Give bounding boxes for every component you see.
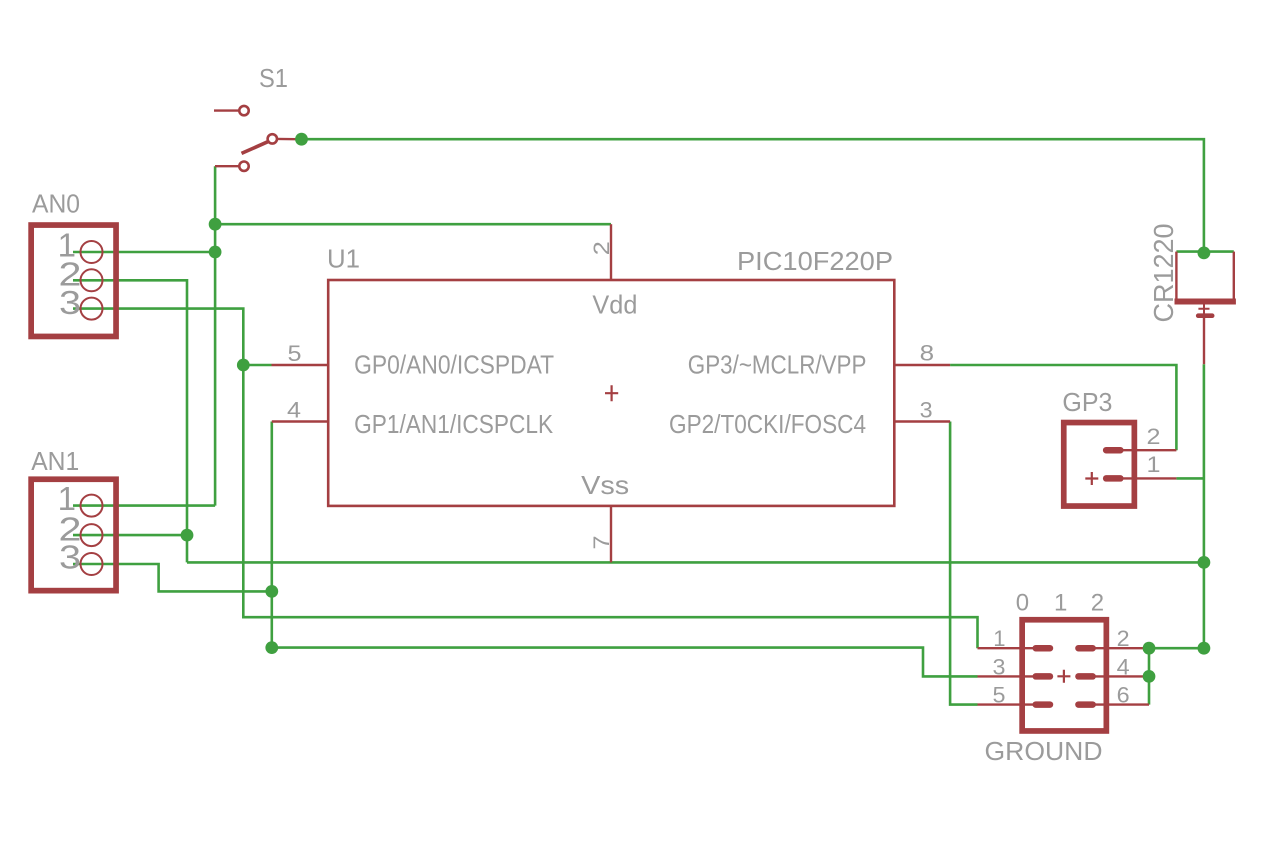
svg-text:AN0: AN0 (32, 189, 80, 219)
junction ground bus bottom (1198, 642, 1211, 655)
junction ground bus right (1198, 556, 1211, 569)
GP3 pin 1 pad (1103, 475, 1124, 482)
connector GROUND body (1022, 620, 1106, 731)
svg-text:1: 1 (1054, 589, 1067, 616)
junction AN1 pin2 (181, 529, 194, 542)
svg-text:GP3/~MCLR/VPP: GP3/~MCLR/VPP (688, 350, 867, 380)
svg-text:2: 2 (589, 241, 614, 255)
AN1 pin 3 pad (81, 553, 103, 575)
svg-text:GP1/AN1/ICSPCLK: GP1/AN1/ICSPCLK (354, 409, 554, 439)
svg-text:S1: S1 (259, 63, 288, 93)
svg-text:2: 2 (1147, 424, 1161, 449)
wire AN1 pin2 (73, 534, 187, 537)
svg-text:5: 5 (993, 683, 1006, 708)
svg-text:3: 3 (993, 655, 1006, 680)
wire GP2 pin3 net to GROUND pin5 (950, 422, 977, 705)
svg-text:GP3: GP3 (1062, 387, 1112, 417)
wire AN0 pin1 (73, 251, 215, 254)
battery CR1220 right side (1233, 252, 1235, 299)
IC U1 body (328, 280, 894, 506)
GROUND pin 3 lead (978, 675, 1043, 677)
GROUND pad 2 (1075, 645, 1096, 652)
junction GP1 corner (265, 641, 278, 654)
battery plus sign (1198, 303, 1209, 314)
switch S1 bottom contact (239, 162, 248, 171)
U1 pin 5 stub (272, 364, 328, 366)
svg-text:5: 5 (288, 341, 302, 366)
U1 center cross (605, 385, 618, 401)
battery negative lead (1203, 318, 1205, 364)
svg-text:2: 2 (1117, 626, 1130, 651)
svg-text:AN1: AN1 (31, 446, 79, 476)
connector GP3 body (1064, 423, 1135, 507)
U1 pin 7 stub (610, 505, 612, 562)
junction Vdd feed (209, 218, 222, 231)
junction battery top (1198, 247, 1211, 260)
AN0 pin 3 pad (81, 298, 103, 320)
svg-text:6: 6 (1117, 683, 1130, 708)
junction AN0 pin1 (209, 246, 222, 259)
junction GROUND pin2 (1143, 642, 1156, 655)
svg-text:4: 4 (287, 397, 301, 422)
GROUND pad 6 (1075, 701, 1096, 708)
wire battery negative down to ground bus (1203, 364, 1206, 648)
svg-text:0: 0 (1016, 589, 1029, 616)
GROUND pad 1 (1033, 645, 1054, 652)
AN0 pin 1 pad (81, 241, 103, 263)
switch S1 pole contact (268, 134, 277, 143)
svg-text:8: 8 (920, 340, 935, 365)
svg-text:PIC10F220P: PIC10F220P (737, 246, 893, 276)
svg-text:1: 1 (1147, 452, 1161, 477)
GP3 pin 2 pad (1103, 447, 1124, 454)
wire VCC top from switch to battery (302, 139, 1204, 253)
wire GP3 pin8 to GP3 header pin2 (950, 365, 1176, 450)
AN1 pin 2 pad (81, 524, 103, 546)
connector AN1 body (31, 479, 116, 590)
wire AN1 pin1 (73, 504, 215, 507)
svg-text:GP2/T0CKI/FOSC4: GP2/T0CKI/FOSC4 (669, 409, 866, 439)
wire AN0 pin3 to GROUND pin1 (73, 309, 978, 649)
GROUND pin 2 lead (1086, 647, 1149, 649)
switch S1 top contact (239, 106, 248, 115)
svg-text:U1: U1 (327, 244, 360, 274)
U1 pin 4 stub (272, 420, 327, 422)
wire GP1 pin4 net to GROUND pin3 (272, 422, 978, 677)
svg-text:7: 7 (589, 536, 614, 550)
GP3 plus mark (1085, 472, 1098, 485)
GP3 pin 2 lead (1113, 449, 1176, 451)
GROUND pin 5 lead (978, 703, 1043, 705)
battery positive plate (1175, 299, 1236, 305)
svg-text:1: 1 (993, 626, 1005, 651)
svg-text:3: 3 (920, 397, 933, 422)
wire AN1 pin3 jog (73, 564, 272, 591)
svg-text:GROUND: GROUND (985, 736, 1103, 766)
wire ground bus horizontal (187, 561, 1204, 564)
battery CR1220 left side (1175, 252, 1177, 299)
svg-text:Vss: Vss (581, 470, 629, 500)
svg-text:3: 3 (59, 284, 81, 321)
U1 pin 3 stub (894, 420, 950, 422)
switch S1 top throw lead (214, 109, 239, 111)
GROUND pad 4 (1075, 673, 1096, 680)
svg-text:2: 2 (1091, 589, 1104, 616)
U1 pin 2 stub (610, 224, 612, 279)
junction at switch pole (295, 133, 308, 146)
GP3 pin 1 lead (1113, 477, 1176, 479)
junction GROUND pin4 (1143, 670, 1156, 683)
junction GP0 pin5 (237, 359, 250, 372)
switch S1 blade (242, 141, 270, 153)
connector AN0 body (31, 225, 116, 336)
GROUND pin 4 lead (1086, 675, 1149, 677)
wire battery top edge (1176, 250, 1233, 253)
AN0 pin 2 pad (81, 269, 103, 291)
GROUND pin 1 lead (978, 647, 1043, 649)
wire AN0 pin2 to ground bus (73, 280, 187, 562)
switch S1 pole lead (277, 138, 296, 141)
battery negative plate (1196, 313, 1215, 318)
wire GROUND pins 2-4-6 to ground bus (1149, 648, 1204, 704)
junction AN1 pin3 / GP1 (265, 585, 278, 598)
svg-text:GP0/AN0/ICSPDAT: GP0/AN0/ICSPDAT (354, 350, 554, 380)
wire GP3 header pin1 link (1176, 477, 1204, 480)
wire Vdd pin2 feed (215, 223, 611, 226)
svg-text:Vdd: Vdd (592, 290, 637, 320)
svg-text:CR1220: CR1220 (1148, 224, 1179, 323)
svg-text:3: 3 (59, 539, 81, 576)
GROUND pad 3 (1033, 673, 1054, 680)
GROUND pin 6 lead (1086, 703, 1149, 705)
svg-text:4: 4 (1117, 655, 1130, 680)
GROUND plus mark (1057, 670, 1070, 683)
switch S1 bottom throw lead (215, 165, 239, 167)
AN1 pin 1 pad (81, 495, 103, 517)
GROUND pad 5 (1033, 701, 1054, 708)
wire GP0 pin5 link (243, 364, 271, 367)
wire switch vertical to AN1 pin1 (214, 166, 217, 505)
U1 pin 8 stub (894, 364, 950, 366)
